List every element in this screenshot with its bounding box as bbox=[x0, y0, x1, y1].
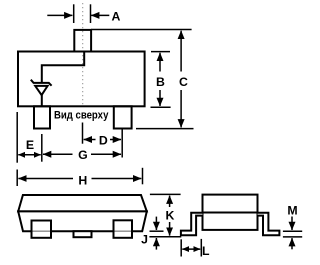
gray line through right pad bbox=[115, 230, 132, 232]
dim B arrows bbox=[159, 53, 161, 72]
wire from tab to diode cathode bbox=[42, 52, 84, 83]
svg-text:J: J bbox=[141, 232, 148, 246]
svg-text:B: B bbox=[156, 75, 165, 89]
right gull-wing lead bbox=[258, 213, 280, 236]
dim J arrows bbox=[155, 217, 157, 230]
dim J extension line bbox=[150, 230, 164, 232]
svg-text:E: E bbox=[26, 138, 34, 152]
dim A extension ticks bbox=[74, 4, 91, 23]
svg-text:C: C bbox=[179, 75, 188, 89]
bottom-right pin (pin 2) bbox=[114, 106, 132, 128]
svg-text:A: A bbox=[111, 10, 120, 24]
svg-text:K: K bbox=[165, 208, 174, 222]
dim C extension lines bbox=[91, 30, 193, 129]
svg-text:Вид сверху: Вид сверху bbox=[54, 109, 109, 121]
svg-text:H: H bbox=[78, 174, 87, 188]
side view front face bbox=[18, 211, 147, 231]
dim E extension lines bbox=[17, 112, 42, 163]
dim H arrows bbox=[18, 178, 73, 180]
top tab (pin 3) bbox=[74, 30, 91, 52]
svg-text:D: D bbox=[99, 134, 108, 148]
dim D arrows bbox=[84, 139, 96, 141]
zener diode D1 triangle bbox=[35, 86, 47, 95]
side view top face bbox=[18, 195, 147, 211]
top view package body bbox=[18, 52, 145, 107]
svg-text:G: G bbox=[78, 148, 88, 162]
dim C arrows bbox=[180, 31, 182, 72]
end view body bbox=[203, 195, 258, 230]
left gull-wing lead bbox=[181, 213, 203, 236]
dim B extension lines bbox=[151, 52, 171, 108]
node centerline (dotted) bbox=[82, 3, 84, 106]
dim M lines bbox=[283, 231, 302, 237]
dim K extension lines bbox=[149, 194, 181, 236]
dim M arrows bbox=[291, 217, 293, 231]
bottom-left pin (pin 1) bbox=[34, 106, 50, 128]
dim G arrows bbox=[43, 153, 73, 155]
zener diode D1 cathode bar bbox=[31, 80, 52, 86]
dim L arrow bbox=[182, 248, 200, 250]
side view middle pad bbox=[74, 231, 92, 237]
dim D extension lines bbox=[83, 123, 123, 158]
dim H extension ticks bbox=[17, 168, 142, 186]
dim L extension lines bbox=[181, 239, 201, 257]
dim K arrows bbox=[169, 196, 171, 207]
wire from diode anode to pin 1 bbox=[41, 95, 43, 107]
side view right pad bbox=[114, 220, 133, 238]
svg-text:M: M bbox=[287, 203, 297, 217]
dim A arrows bbox=[47, 14, 72, 16]
gray line through left pad bbox=[33, 230, 51, 232]
dim E arrow bbox=[18, 154, 40, 156]
svg-text:L: L bbox=[202, 244, 210, 258]
end view parting line bbox=[203, 212, 258, 214]
side view left pad bbox=[32, 221, 52, 238]
